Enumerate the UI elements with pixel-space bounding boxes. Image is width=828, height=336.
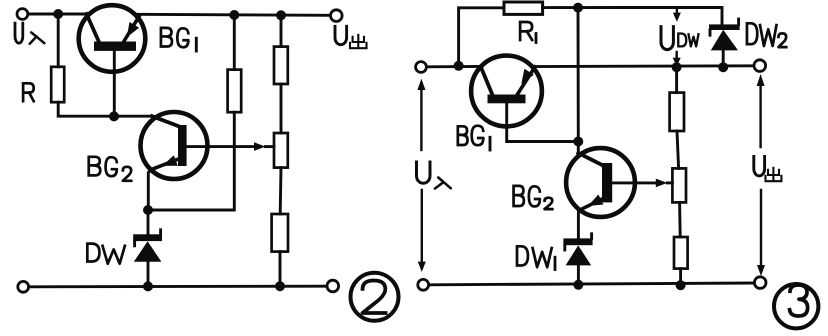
wiper arrow into potentiometer — [254, 142, 266, 151]
label DW1 — [517, 246, 552, 267]
label U_out (fig3) — [754, 157, 765, 176]
wire: top dot down to BG1 base node (crosses output rail, no joint) — [577, 8, 580, 142]
node: junction dot BG1 base / BG2 collector — [109, 111, 119, 121]
node: junction dot output rail / divider — [672, 62, 682, 72]
transistor BG1 — [79, 5, 146, 116]
glyph ru (enter) subscript — [30, 32, 45, 43]
node: junction dot DW anode on bottom rail — [143, 281, 153, 291]
transistor BG1 (fig3) — [471, 56, 578, 142]
wire: lower divider resistor to bottom rail — [279, 252, 282, 287]
resistor R1 — [504, 2, 543, 14]
wire: upper divider resistor to potentiometer — [280, 84, 283, 133]
terminal: bottom-left — [18, 281, 29, 292]
terminal: output top-right — [331, 10, 343, 22]
wire: output rail (BG1 emitter to output terminal) — [533, 64, 754, 68]
annotation U_DW with arrows — [673, 8, 681, 67]
glyph ru (enter) subscript fig3 — [435, 178, 451, 189]
transistor BG2 — [141, 112, 256, 210]
wire: top rail right segment (BG1 circle to output terminal) — [136, 14, 330, 15]
terminal: bottom-right — [327, 280, 339, 292]
wire: bottom rail (fig3) — [429, 283, 754, 285]
wire: R1 to DW2 corner — [543, 7, 722, 24]
wire: top rail to upper divider resistor — [280, 15, 283, 46]
resistor (lower divider) — [272, 214, 288, 252]
transistor BG2 (fig3) — [566, 142, 656, 239]
wire: input rail to BG1 collector — [427, 65, 481, 68]
zener DW — [133, 210, 162, 286]
terminal: input top-left — [17, 9, 28, 20]
wire: lower resistor to bottom rail — [679, 269, 682, 285]
resistor R — [51, 67, 64, 102]
label BG1 (fig3) — [458, 126, 483, 146]
terminal: bottom-left (fig3) — [418, 279, 429, 290]
label R — [23, 83, 34, 101]
terminal: input top-left (fig3) — [416, 62, 427, 73]
label BG2 (fig3) — [514, 186, 553, 209]
glyph chu (out) subscript — [350, 35, 367, 48]
wire: potentiometer to lower resistor — [678, 202, 682, 237]
resistor (upper divider) — [274, 47, 288, 84]
node: junction dot bottom rail / divider — [275, 281, 285, 291]
label U_in (fig2) — [15, 23, 23, 43]
terminal: output top-right (fig3) — [754, 60, 766, 72]
label U_DW — [661, 27, 673, 50]
label DW2 — [747, 23, 786, 47]
wire: R bottom down and right to BG1 base node — [58, 102, 114, 116]
node: junction dot top wire / BG1 base branch — [573, 3, 583, 13]
wiper arrow into potentiometer (fig3) — [656, 179, 668, 188]
wire: node to BG2 collector entry — [114, 115, 152, 118]
annotation U_in arrows (fig3) — [417, 79, 425, 272]
resistor (upper divider fig3) — [670, 93, 684, 131]
node: junction dot bottom rail / divider (fig3) — [676, 280, 686, 290]
label DW — [87, 244, 125, 264]
terminal: bottom-right (fig3) — [754, 277, 766, 289]
zener DW2 — [709, 19, 740, 67]
wire: up from input rail to top wire — [459, 8, 504, 66]
wire: to potentiometer — [677, 131, 679, 168]
wire: top rail to bias resistor — [233, 15, 236, 70]
label BG2 — [89, 157, 131, 181]
node: junction dot output rail / DW2 — [718, 62, 728, 72]
resistor (upper bias, mid column) — [228, 70, 242, 113]
label U_in (fig3) — [417, 162, 431, 183]
label BG1 — [161, 28, 188, 47]
figure number 2 — [351, 273, 399, 321]
node: junction dot input rail / R1 branch — [454, 61, 464, 71]
glyph chu (out) subscript fig3 — [766, 168, 782, 181]
resistor (lower divider fig3) — [674, 237, 688, 269]
node: BG2 emitter junction — [143, 205, 153, 215]
label R1 — [520, 22, 532, 40]
figure number 3 — [774, 284, 818, 328]
node: junction dot top rail / bias resistor — [229, 10, 239, 20]
wire: output rail to upper divider resistor — [675, 67, 678, 92]
node: junction dot at R top — [53, 9, 63, 19]
zener DW1 — [563, 234, 592, 285]
wire: top rail left segment (input to BG1 circle) — [28, 13, 88, 16]
potentiometer — [274, 133, 288, 168]
node: junction dot top rail / divider — [276, 10, 286, 20]
node: junction dot DW1 anode on bottom rail — [573, 280, 583, 290]
wire: bottom rail — [29, 285, 327, 288]
wire: from top rail down to resistor R — [57, 14, 60, 67]
annotation U_out arrows (fig3) — [757, 74, 765, 276]
label U_out (fig2) — [335, 26, 347, 44]
node: junction dot BG1 base / BG2 collector — [573, 137, 583, 147]
wire: emitter node right to sampling branch — [148, 112, 234, 210]
potentiometer (fig3) — [672, 168, 686, 202]
wire: potentiometer to lower divider resistor — [279, 168, 283, 214]
